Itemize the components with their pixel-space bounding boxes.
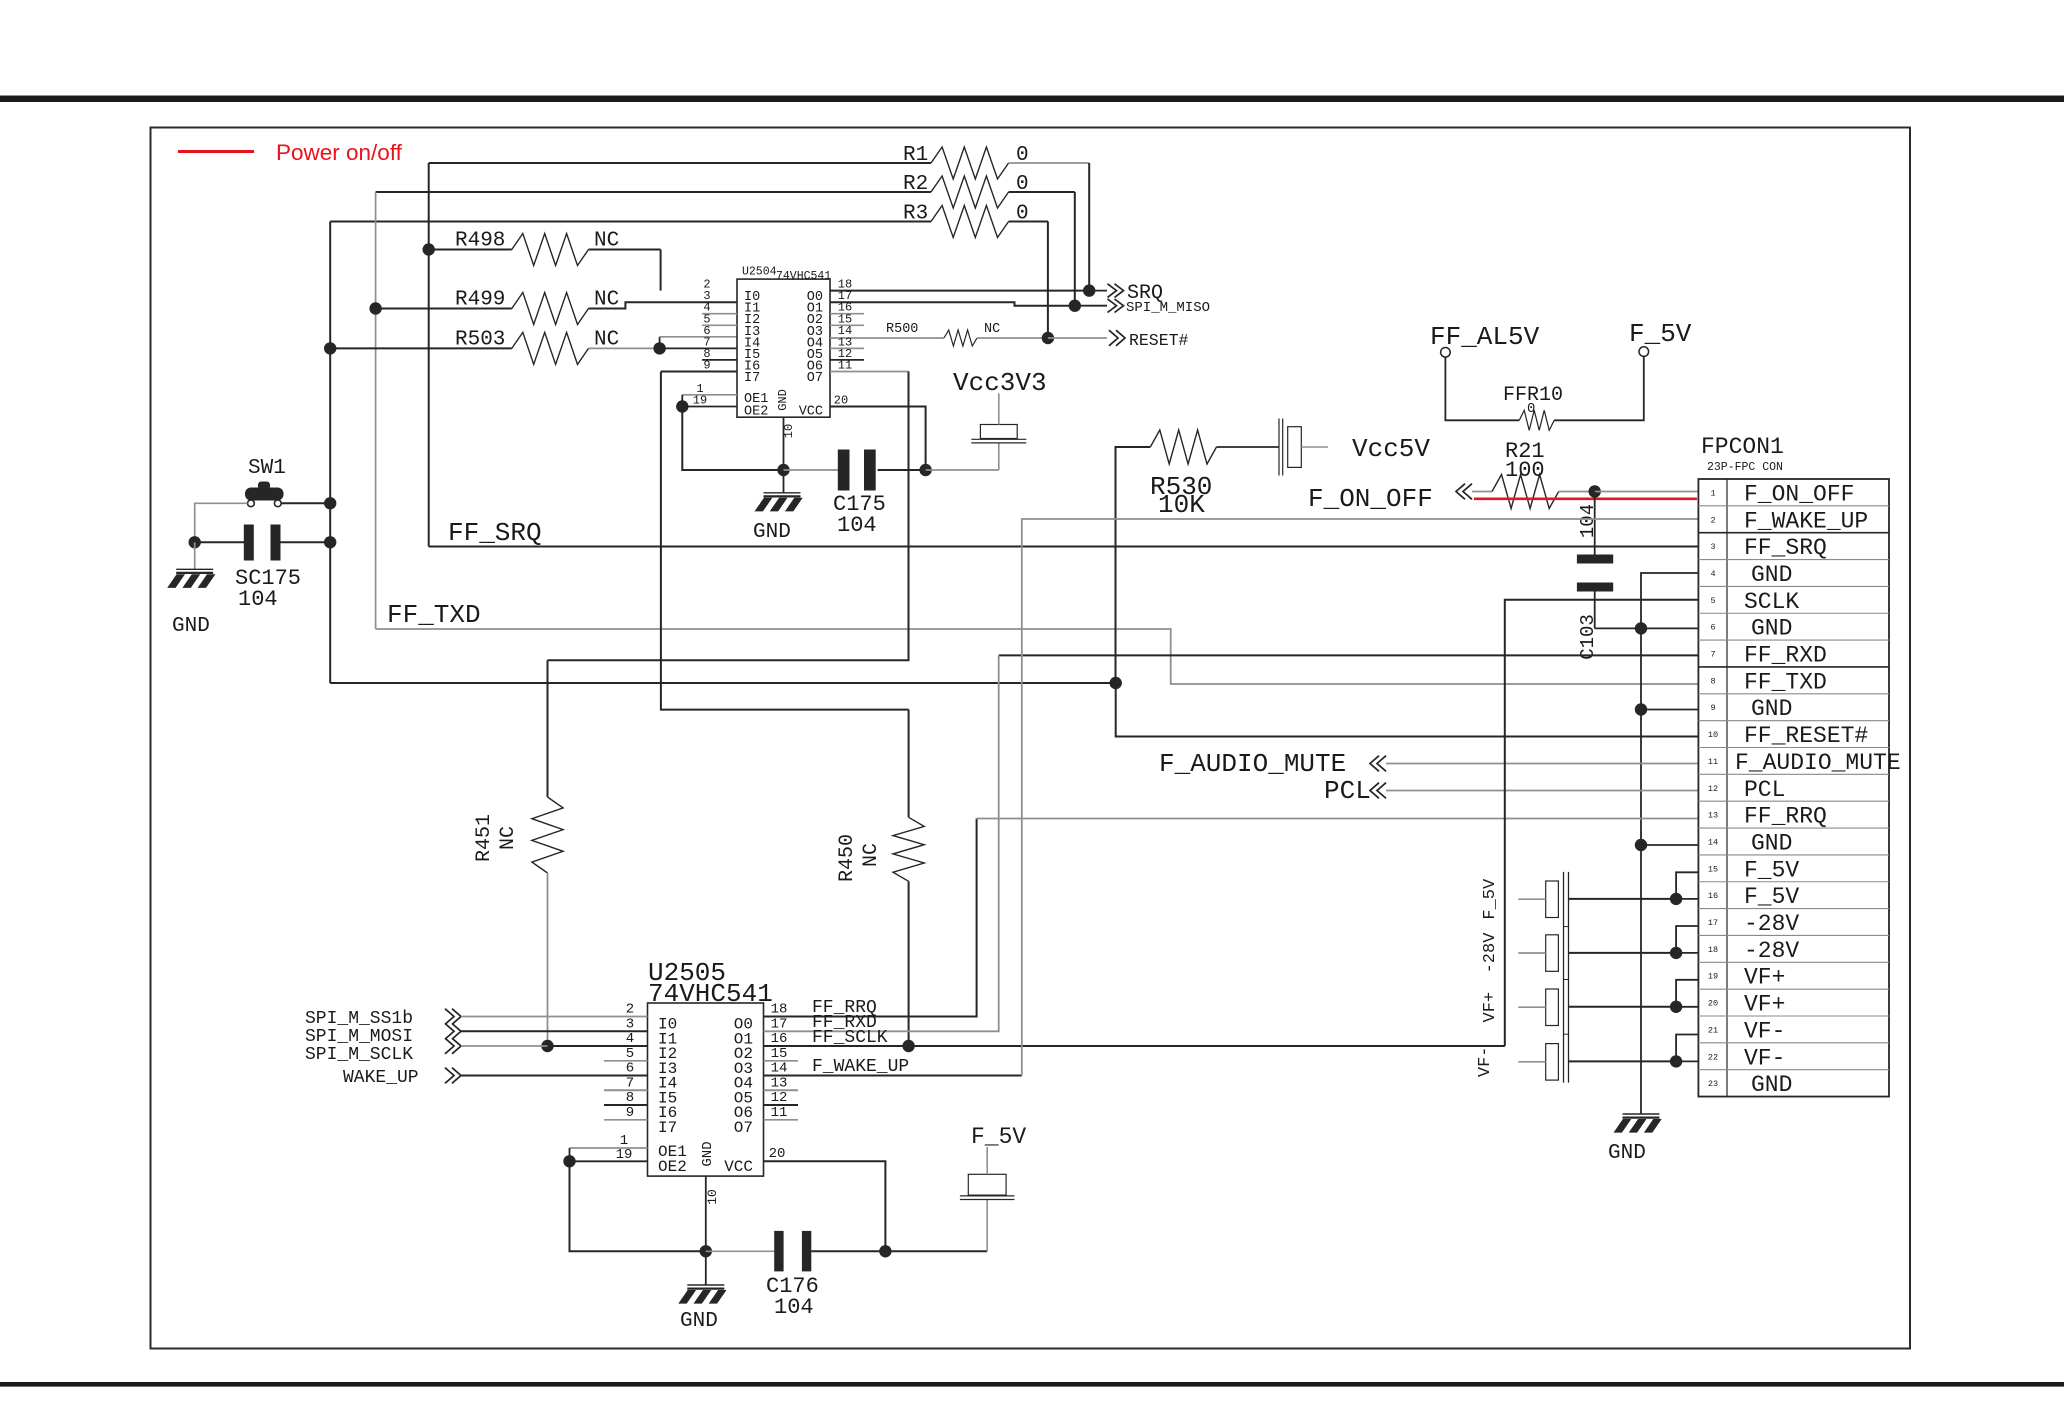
contact bus bar bbox=[1563, 872, 1565, 1083]
node C176 right junction bbox=[879, 1245, 891, 1257]
wire I5 stub bbox=[660, 347, 737, 349]
wire contact 3 right bbox=[1569, 1006, 1677, 1008]
wire OE2 U2504 bbox=[682, 406, 737, 408]
wire contact 2 row bbox=[1676, 952, 1699, 954]
wire U2505 GND stem bbox=[705, 1176, 707, 1251]
wire U2504 pin12 stub bbox=[830, 359, 864, 361]
connector FPCON1 pin column divider bbox=[1726, 479, 1728, 1097]
svg-text:FF_RESET#: FF_RESET# bbox=[1744, 723, 1868, 749]
svg-text:14: 14 bbox=[771, 1061, 788, 1077]
svg-text:74VHC541: 74VHC541 bbox=[776, 270, 831, 283]
svg-text:FPCON1: FPCON1 bbox=[1701, 434, 1784, 460]
svg-text:9: 9 bbox=[626, 1105, 634, 1121]
wire to Vcc3V3 bbox=[926, 469, 999, 471]
wire I4 stub bbox=[660, 336, 737, 338]
svg-text:GND: GND bbox=[776, 389, 790, 411]
svg-text:F_5V: F_5V bbox=[1629, 319, 1692, 349]
wire U2505 OE1 bbox=[570, 1147, 648, 1149]
node SPI_M_MISO junction bbox=[1069, 300, 1081, 312]
wire gnd to C176 bbox=[706, 1250, 774, 1252]
wire SC175 left bbox=[195, 541, 244, 543]
wire R498 left bbox=[429, 249, 512, 251]
node contact 1 bbox=[1670, 893, 1682, 905]
capacitor C103 bbox=[1577, 555, 1613, 564]
svg-text:F_ON_OFF: F_ON_OFF bbox=[1308, 484, 1433, 514]
wire U2505 pin13 stub bbox=[764, 1089, 799, 1091]
switch SW1 contacts bbox=[248, 500, 255, 507]
svg-text:O7: O7 bbox=[807, 371, 823, 386]
svg-text:R450: R450 bbox=[836, 834, 859, 882]
svg-text:14: 14 bbox=[1708, 837, 1718, 847]
svg-text:18: 18 bbox=[1708, 945, 1718, 955]
svg-text:11: 11 bbox=[838, 359, 852, 373]
wire power highlight red bbox=[1474, 497, 1697, 500]
wire R1 row bbox=[429, 162, 931, 164]
svg-text:GND: GND bbox=[1751, 830, 1792, 856]
svg-text:F_5V: F_5V bbox=[1744, 857, 1799, 883]
port F_5V circle bbox=[1639, 347, 1649, 357]
svg-text:20: 20 bbox=[769, 1146, 786, 1162]
wire U2505 pin20 VCC bbox=[764, 1161, 886, 1251]
svg-text:SW1: SW1 bbox=[248, 457, 286, 480]
wire to F_5V tap bbox=[885, 1250, 987, 1252]
wire R503 left bbox=[330, 347, 512, 349]
wire GND row6 bbox=[1595, 627, 1699, 629]
wire FF_RRQ row13 bbox=[977, 818, 1699, 820]
svg-text:FF_SRQ: FF_SRQ bbox=[448, 518, 542, 548]
op-amp U2504 box bbox=[737, 279, 830, 417]
capacitor C175 bbox=[838, 450, 850, 491]
wire R530 left riser bbox=[1116, 447, 1151, 683]
resistor FFR10 bbox=[1519, 410, 1554, 430]
wire R1 out bbox=[1009, 162, 1090, 164]
wire OE1 U2504 bbox=[682, 394, 737, 396]
svg-text:F_5V: F_5V bbox=[1481, 878, 1500, 920]
svg-text:OE2: OE2 bbox=[744, 405, 768, 420]
svg-text:GND: GND bbox=[1751, 696, 1792, 722]
wire SW1 net riser bbox=[329, 222, 331, 684]
port SRQ chevron bbox=[1108, 284, 1117, 298]
wire U2505 pin8 stub bbox=[604, 1104, 648, 1106]
wire contact 2 hook bbox=[1676, 926, 1699, 953]
wire contact 4 row bbox=[1676, 1060, 1699, 1062]
svg-text:VCC: VCC bbox=[799, 405, 823, 420]
wire F_WAKE_UP out bbox=[764, 1075, 1022, 1077]
wire U2504 GND stem bbox=[783, 417, 785, 470]
svg-text:F_AUDIO_MUTE: F_AUDIO_MUTE bbox=[1159, 749, 1346, 779]
wire contact 1 hook bbox=[1676, 872, 1699, 899]
wire F_AUDIO_MUTE bbox=[1386, 763, 1699, 765]
resistor R499 bbox=[512, 293, 589, 325]
wire FF_SCLK out bbox=[764, 1045, 1505, 1047]
svg-text:SPI_M_SS1b: SPI_M_SS1b bbox=[305, 1009, 413, 1029]
wire U2504 pin9 I7 bbox=[661, 371, 737, 373]
svg-text:9: 9 bbox=[703, 359, 710, 373]
wire contact 2 left bbox=[1518, 952, 1545, 954]
svg-text:22: 22 bbox=[1708, 1052, 1718, 1062]
capacitor C103 top lead bbox=[1594, 492, 1596, 555]
wire U2504 pin4 stub bbox=[702, 313, 737, 315]
node contact 2 bbox=[1670, 947, 1682, 959]
svg-text:18: 18 bbox=[771, 1002, 788, 1018]
svg-text:4: 4 bbox=[1710, 569, 1715, 579]
wire SW1 right bbox=[281, 502, 330, 504]
node SW1-R530 junction bbox=[1110, 677, 1122, 689]
bottom page bar bbox=[0, 1382, 2064, 1387]
wire U2504 pin16 stub bbox=[830, 313, 864, 315]
wire FFR10 to F_5V bbox=[1554, 356, 1644, 420]
svg-text:NC: NC bbox=[984, 322, 1000, 337]
capacitor C176 bbox=[774, 1231, 783, 1272]
svg-text:6: 6 bbox=[1710, 623, 1715, 633]
svg-text:GND: GND bbox=[172, 615, 210, 638]
svg-text:104: 104 bbox=[238, 587, 278, 612]
wire GND row9 bbox=[1641, 709, 1699, 711]
svg-text:20: 20 bbox=[1708, 999, 1718, 1009]
wire U2504 pin15 stub bbox=[830, 324, 864, 326]
svg-text:GND: GND bbox=[1751, 1072, 1792, 1098]
connector FPCON1 row dividers bbox=[1698, 505, 1889, 507]
ground SW1 bbox=[194, 542, 196, 569]
port SPI_M_MISO chevron bbox=[1108, 299, 1117, 313]
svg-text:17: 17 bbox=[771, 1016, 788, 1032]
wire R2 out bbox=[1009, 191, 1075, 193]
wire U2505 OE link bbox=[569, 1148, 571, 1161]
svg-text:VF-: VF- bbox=[1476, 1046, 1495, 1077]
svg-text:3: 3 bbox=[1710, 542, 1715, 552]
svg-text:SPI_M_MOSI: SPI_M_MOSI bbox=[305, 1027, 413, 1047]
wire OE to gnd rail bbox=[682, 407, 783, 471]
connector contact 3 bbox=[1546, 989, 1559, 1026]
wire contact 3 row bbox=[1676, 1006, 1699, 1008]
svg-text:10: 10 bbox=[782, 424, 796, 438]
svg-text:PCL: PCL bbox=[1744, 777, 1785, 803]
svg-text:2: 2 bbox=[1710, 515, 1715, 525]
svg-text:O7: O7 bbox=[734, 1119, 753, 1137]
wire U2504 pin20 VCC bbox=[830, 407, 926, 471]
wire FF_RRQ out bbox=[764, 819, 977, 1017]
wire SPI_M_SS1b bbox=[461, 1016, 648, 1018]
wire SPI_M_MISO stub bbox=[1075, 305, 1107, 307]
resistor R3 bbox=[931, 206, 1009, 238]
svg-text:SPI_M_MISO: SPI_M_MISO bbox=[1126, 300, 1210, 316]
wire U2505 pin5 stub bbox=[604, 1060, 648, 1062]
wire U2505 pin11 stub bbox=[764, 1119, 799, 1121]
wire contact 4 hook bbox=[1676, 1035, 1699, 1062]
svg-text:15: 15 bbox=[1708, 864, 1718, 874]
wire R499 left bbox=[376, 308, 512, 310]
ground U2504 bbox=[783, 470, 785, 493]
wire U2505 pin9 stub bbox=[604, 1119, 648, 1121]
resistor R451 bbox=[532, 797, 563, 873]
wire R2 drop to SPI_M_MISO bbox=[1074, 192, 1076, 306]
ground FPCON bbox=[1623, 1113, 1660, 1115]
svg-text:104: 104 bbox=[774, 1295, 814, 1320]
node contact 4 bbox=[1670, 1055, 1682, 1067]
wire SW1 net row bbox=[330, 682, 1115, 684]
svg-text:NC: NC bbox=[860, 843, 883, 867]
svg-text:VF-: VF- bbox=[1744, 1018, 1785, 1044]
schematic border frame bbox=[151, 128, 1911, 1349]
svg-text:7: 7 bbox=[1710, 650, 1715, 660]
connector contact 4 bbox=[1546, 1044, 1559, 1081]
svg-text:15: 15 bbox=[771, 1046, 788, 1062]
wire FF_AL5V down bbox=[1445, 357, 1519, 420]
node C175 vcc junction bbox=[919, 464, 931, 476]
wire U2504 pin14 R500 lead bbox=[830, 337, 944, 339]
svg-text:5: 5 bbox=[1710, 596, 1715, 606]
svg-text:R498: R498 bbox=[455, 230, 505, 253]
connector contact 1 bbox=[1546, 881, 1559, 918]
svg-text:R2: R2 bbox=[903, 173, 928, 196]
node R499 junction bbox=[369, 302, 381, 314]
wire U2504 pin5 stub bbox=[702, 324, 737, 326]
svg-text:SCLK: SCLK bbox=[1744, 589, 1799, 615]
port SPI_M_SCLK chevron bbox=[445, 1038, 454, 1054]
svg-text:104: 104 bbox=[1577, 504, 1599, 538]
svg-text:17: 17 bbox=[1708, 918, 1718, 928]
node F_ON_OFF junction bbox=[1589, 485, 1601, 497]
wire C176 right bbox=[811, 1250, 885, 1252]
svg-text:4: 4 bbox=[626, 1031, 634, 1047]
wire U2505 pin15 stub bbox=[764, 1060, 799, 1062]
svg-text:10: 10 bbox=[705, 1189, 720, 1205]
wire WAKE_UP bbox=[461, 1075, 648, 1077]
node gnd row9 bbox=[1635, 703, 1647, 715]
svg-text:21: 21 bbox=[1708, 1025, 1718, 1035]
wire R3 out bbox=[1009, 221, 1048, 223]
svg-text:Vcc3V3: Vcc3V3 bbox=[953, 368, 1047, 398]
wire PCL bbox=[1386, 790, 1699, 792]
wire RESET# stub bbox=[1048, 337, 1107, 339]
wire FF_SRQ row bbox=[429, 546, 1699, 548]
svg-text:13: 13 bbox=[1708, 811, 1718, 821]
node RESET# junction bbox=[1042, 332, 1054, 344]
wire contact 1 left bbox=[1518, 898, 1545, 900]
svg-text:GND: GND bbox=[1608, 1142, 1646, 1165]
resistor R530 bbox=[1150, 430, 1216, 464]
svg-text:U2504: U2504 bbox=[742, 266, 777, 279]
node U2505 OE junction bbox=[563, 1155, 575, 1167]
wire contact 1 row bbox=[1676, 898, 1699, 900]
svg-text:104: 104 bbox=[837, 513, 877, 538]
wire U2505 pin12 stub bbox=[764, 1104, 799, 1106]
svg-text:0: 0 bbox=[1527, 401, 1535, 417]
wire R2 row bbox=[376, 191, 931, 193]
port SPI_M_MOSI chevron bbox=[445, 1024, 454, 1040]
svg-text:FF_RXD: FF_RXD bbox=[1744, 643, 1827, 669]
resistor R21 bbox=[1492, 475, 1559, 509]
svg-text:F_AUDIO_MUTE: F_AUDIO_MUTE bbox=[1735, 750, 1901, 776]
wire U2504 pin11 O7 bbox=[830, 371, 909, 373]
wire R3 drop to RESET# bbox=[1047, 222, 1049, 339]
svg-text:16: 16 bbox=[771, 1031, 788, 1047]
wire GND row14 bbox=[1641, 844, 1699, 846]
wire O7 route bbox=[548, 372, 909, 661]
wire SW1 left bbox=[195, 503, 248, 542]
svg-text:100: 100 bbox=[1505, 458, 1545, 483]
node SPI_M_SCLK junction bbox=[541, 1040, 553, 1052]
svg-text:F_WAKE_UP: F_WAKE_UP bbox=[812, 1057, 909, 1077]
node contact 3 bbox=[1670, 1001, 1682, 1013]
svg-text:FF_SCLK: FF_SCLK bbox=[812, 1028, 888, 1048]
wire OE1-OE2 link bbox=[681, 395, 683, 407]
svg-text:RESET#: RESET# bbox=[1129, 331, 1189, 350]
capacitor SC175 bbox=[244, 525, 254, 561]
port SPI_M_SS1b chevron bbox=[445, 1009, 454, 1025]
svg-text:GND: GND bbox=[680, 1310, 718, 1333]
svg-text:7: 7 bbox=[626, 1075, 634, 1091]
svg-text:9: 9 bbox=[1710, 703, 1715, 713]
wire R21 out bbox=[1559, 491, 1595, 493]
svg-text:FF_AL5V: FF_AL5V bbox=[1430, 322, 1540, 352]
svg-text:23P-FPC CON: 23P-FPC CON bbox=[1707, 461, 1783, 474]
svg-text:Power on/off: Power on/off bbox=[276, 140, 403, 165]
wire R498 out bbox=[589, 249, 661, 251]
power F_5V tap bbox=[986, 1200, 988, 1252]
svg-text:VF+: VF+ bbox=[1744, 992, 1785, 1018]
node gnd row6 bbox=[1635, 622, 1647, 634]
svg-text:FF_SRQ: FF_SRQ bbox=[1744, 535, 1827, 561]
wire contact 1 right bbox=[1569, 898, 1677, 900]
top page bar bbox=[0, 96, 2064, 103]
svg-text:FF_TXD: FF_TXD bbox=[1744, 669, 1827, 695]
wire C175 to vcc node bbox=[878, 469, 926, 471]
wire U2505 OE to gnd bbox=[570, 1161, 706, 1251]
wire FF_RXD out bbox=[764, 655, 999, 1031]
svg-text:VCC: VCC bbox=[724, 1158, 753, 1176]
svg-text:12: 12 bbox=[1708, 784, 1718, 794]
wire gnd to C175 bbox=[784, 469, 840, 471]
legend red line bbox=[178, 150, 254, 153]
wire R1 drop to SRQ bbox=[1088, 163, 1090, 291]
wire U2504 pin8 stub bbox=[702, 359, 737, 361]
wire gnd rail bbox=[1641, 573, 1699, 1114]
svg-text:R1: R1 bbox=[903, 144, 928, 167]
node U2504 gnd junction bbox=[777, 464, 789, 476]
svg-text:19: 19 bbox=[1708, 972, 1718, 982]
svg-text:12: 12 bbox=[771, 1090, 788, 1106]
svg-text:20: 20 bbox=[834, 394, 848, 408]
port PCL chevron bbox=[1377, 783, 1386, 799]
node OE junction U2504 bbox=[676, 400, 688, 412]
svg-text:10: 10 bbox=[1708, 730, 1718, 740]
svg-text:GND: GND bbox=[1751, 616, 1792, 642]
svg-text:FF_TXD: FF_TXD bbox=[387, 600, 481, 630]
connector contact 2 bbox=[1546, 935, 1559, 972]
svg-text:FF_RRQ: FF_RRQ bbox=[1744, 804, 1827, 830]
svg-text:11: 11 bbox=[1708, 757, 1718, 767]
node gnd row14 bbox=[1635, 839, 1647, 851]
wire F_ON_OFF lead bbox=[1472, 491, 1492, 493]
wire U2505 pin7 stub bbox=[604, 1089, 648, 1091]
svg-text:R503: R503 bbox=[455, 329, 505, 352]
wire U2504 pin13 stub bbox=[830, 347, 864, 349]
node SW1 junction bbox=[324, 497, 336, 509]
port F_ON_OFF chevron bbox=[1463, 484, 1472, 500]
node SC175 right junction bbox=[324, 536, 336, 548]
wire SPI_M_SCLK bbox=[461, 1045, 548, 1047]
resistor R450 lead top bbox=[908, 710, 910, 818]
resistor R498 bbox=[512, 234, 589, 266]
svg-text:-28V: -28V bbox=[1744, 911, 1799, 937]
resistor R503 bbox=[512, 332, 589, 364]
port F_AUDIO_MUTE chevron bbox=[1377, 756, 1386, 772]
resistor R500 bbox=[944, 330, 977, 346]
wire R530 to FF_RESET# bbox=[1116, 683, 1699, 737]
svg-text:I7: I7 bbox=[744, 371, 760, 386]
port FF_AL5V circle bbox=[1441, 348, 1451, 358]
wire contact 4 left bbox=[1518, 1061, 1545, 1063]
svg-text:VF+: VF+ bbox=[1481, 992, 1500, 1023]
svg-text:10K: 10K bbox=[1158, 490, 1205, 520]
svg-text:Vcc5V: Vcc5V bbox=[1352, 434, 1430, 464]
wire contact 4 right bbox=[1569, 1060, 1677, 1062]
svg-text:VF-: VF- bbox=[1744, 1045, 1785, 1071]
node SRQ junction bbox=[1083, 284, 1095, 296]
svg-text:I7: I7 bbox=[658, 1119, 677, 1137]
wire R3 row bbox=[330, 221, 931, 223]
wire contact 3 hook bbox=[1676, 980, 1699, 1007]
capacitor C103 bottom lead bbox=[1594, 592, 1596, 629]
svg-text:8: 8 bbox=[626, 1090, 634, 1106]
wire contact 3 left bbox=[1518, 1006, 1545, 1008]
node R498 junction bbox=[423, 243, 435, 255]
svg-text:8: 8 bbox=[1710, 676, 1715, 686]
svg-text:-28V: -28V bbox=[1481, 932, 1500, 974]
svg-text:5: 5 bbox=[626, 1046, 634, 1062]
wire jog up to I4 bbox=[659, 337, 661, 349]
wire R451 bottom bbox=[547, 873, 549, 1046]
svg-text:F_WAKE_UP: F_WAKE_UP bbox=[1744, 508, 1868, 534]
wire FF_RXD row bbox=[999, 654, 1699, 656]
wire FF_TXD row bbox=[376, 629, 1699, 684]
op-amp U2505 box bbox=[648, 1003, 764, 1176]
svg-text:GND: GND bbox=[753, 521, 791, 544]
wire R450 bottom bbox=[908, 881, 910, 1046]
node R503-I5 junction bbox=[653, 342, 665, 354]
svg-text:F_ON_OFF: F_ON_OFF bbox=[1744, 481, 1854, 507]
svg-text:1: 1 bbox=[1710, 488, 1715, 498]
wire R500 out bbox=[977, 337, 1048, 339]
node U2505 gnd junction bbox=[700, 1245, 712, 1257]
svg-text:WAKE_UP: WAKE_UP bbox=[343, 1068, 419, 1088]
wire R530 out bbox=[1217, 446, 1279, 448]
resistor R450 bbox=[893, 817, 924, 881]
svg-text:16: 16 bbox=[1708, 891, 1718, 901]
resistor R451 lead top bbox=[547, 660, 549, 797]
svg-text:2: 2 bbox=[626, 1002, 634, 1018]
svg-text:R451: R451 bbox=[473, 814, 496, 862]
ground U2505 bbox=[705, 1251, 707, 1285]
power Vcc5V tap bbox=[1278, 419, 1280, 476]
node SC175 left junction bbox=[189, 536, 201, 548]
wire R503 out bbox=[589, 347, 660, 349]
wire U2505 OE2 bbox=[570, 1160, 648, 1162]
node R503 junction bbox=[324, 342, 336, 354]
svg-text:6: 6 bbox=[626, 1061, 634, 1077]
resistor R1 bbox=[931, 147, 1009, 179]
resistor R2 bbox=[931, 176, 1009, 208]
wire I7 route bbox=[661, 372, 909, 710]
svg-text:F_5V: F_5V bbox=[971, 1124, 1026, 1150]
wire R499 out jog bbox=[589, 302, 738, 308]
wire FF_SCLK riser bbox=[1505, 600, 1699, 1046]
svg-text:74VHC541: 74VHC541 bbox=[648, 979, 773, 1009]
svg-text:C103: C103 bbox=[1577, 614, 1599, 660]
wire FF_TXD riser bbox=[375, 192, 377, 629]
svg-text:VF+: VF+ bbox=[1744, 965, 1785, 991]
